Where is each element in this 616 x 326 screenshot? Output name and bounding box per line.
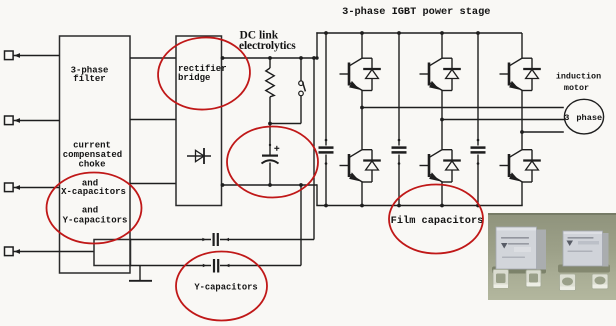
ground	[129, 266, 152, 281]
label: 3-phase IGBT power stage (title)	[342, 6, 490, 18]
annotation ellipse: Y-capacitors	[176, 252, 267, 321]
freewheel diode D5	[442, 150, 461, 182]
freewheel diode D6	[522, 150, 541, 182]
label: Y-capacitors (annotation)	[194, 282, 257, 292]
wire from terminal T2 to filter	[13, 118, 59, 123]
wire filter to rectifier phase 1	[130, 57, 176, 59]
annotation ellipse: X/Y-capacitors	[47, 173, 142, 244]
freewheel diode D1	[362, 58, 381, 90]
node switch top on DC+	[299, 56, 303, 60]
wire leg 3 to bottom bus	[521, 182, 523, 206]
wire from DC- down to lower Y-capacitor line	[300, 185, 302, 266]
node at rectifier DC+ output	[221, 56, 225, 60]
Y-capacitor network box (bottom of filter)	[94, 240, 131, 266]
electrolytic capacitor (DC link)	[262, 124, 280, 186]
svg-text:3-phase IGBT power stage: 3-phase IGBT power stage	[342, 6, 490, 18]
wire filter to rectifier phase 2	[130, 119, 176, 121]
resistor (bleeder/precharge)	[266, 58, 274, 124]
wire from terminal T1 to filter	[13, 53, 59, 58]
svg-text:compensated: compensated	[63, 150, 122, 160]
node C1 bottom bus	[324, 204, 328, 208]
wire phase output W	[522, 131, 564, 133]
svg-text:current: current	[73, 140, 111, 150]
label: and X-capacitors	[61, 179, 126, 198]
node phase tap U	[360, 106, 364, 110]
svg-text:Film capacitors: Film capacitors	[391, 215, 484, 227]
input terminal T3	[5, 183, 14, 192]
node on DC- for Y-line	[299, 183, 303, 187]
svg-text:and: and	[82, 205, 98, 215]
wire DC- from rectifier	[222, 184, 318, 186]
induction motor circle (3 phase)	[564, 99, 603, 134]
node resistor/switch junction	[268, 122, 272, 126]
svg-text:choke: choke	[78, 159, 105, 169]
node phase tap V	[440, 118, 444, 122]
wire from terminal T3 to filter	[13, 185, 59, 190]
node C2 bottom bus	[397, 204, 401, 208]
wire DC- bottom bus	[316, 205, 522, 207]
label: DC link electrolytics	[239, 30, 296, 53]
wire filter to rectifier phase 3	[130, 183, 176, 185]
node riser corner	[315, 56, 318, 59]
node at rectifier DC- output	[221, 183, 225, 187]
node C3 top bus	[476, 31, 480, 35]
node C3 bottom bus	[476, 204, 480, 208]
freewheel diode D4	[362, 150, 381, 182]
wire DC+ from rectifier to riser	[222, 57, 318, 59]
switch contact (bypass)	[299, 58, 306, 124]
label: current compensated choke	[63, 140, 122, 169]
film capacitor C1 (DC link)	[319, 33, 334, 206]
node resistor top on DC+	[268, 56, 272, 60]
node leg 1 bottom bus	[360, 204, 364, 208]
wire DC+ riser	[316, 32, 318, 58]
upper Y-capacitor wire	[130, 239, 314, 241]
node leg 2 top bus	[440, 31, 444, 35]
wire leg 2 from top bus	[441, 33, 443, 58]
annotation ellipse: DC link electrolytics	[227, 127, 318, 198]
wire DC- jog down to bottom bus	[316, 184, 318, 205]
svg-text:Y-capacitors: Y-capacitors	[63, 215, 128, 225]
svg-text:X-capacitors: X-capacitors	[61, 187, 126, 197]
wire joining resistor and switch bottoms	[270, 123, 301, 125]
svg-text:3: 3	[564, 113, 569, 123]
input terminal T4	[5, 247, 14, 256]
svg-text:induction: induction	[556, 72, 601, 82]
node electrolytic at DC- rail	[268, 183, 272, 187]
lower Y-capacitor wire	[130, 265, 301, 267]
node leg 2 bottom bus	[440, 204, 444, 208]
svg-text:filter: filter	[73, 74, 105, 84]
transistor Q3 (IGBT)	[500, 58, 523, 91]
label: 3-phase filter	[71, 65, 109, 84]
3-phase filter box	[60, 36, 131, 273]
annotation ellipse: Film capacitors	[389, 185, 483, 254]
node phase tap W	[520, 130, 524, 134]
node C2 top bus	[397, 31, 401, 35]
input terminal T1	[5, 51, 14, 60]
label: induction motor	[556, 72, 601, 93]
transistor Q2 (IGBT)	[420, 58, 443, 91]
photo of film capacitors (bottom right)	[488, 213, 616, 300]
annotation ellipse: rectifier bridge	[156, 34, 253, 112]
wire leg 1 to bottom bus	[361, 182, 363, 206]
transistor Q1 (IGBT)	[340, 58, 363, 91]
svg-text:motor: motor	[564, 83, 589, 93]
diode symbol inside rectifier	[187, 148, 211, 164]
rectifier bridge box	[176, 36, 222, 206]
wire leg 2 to bottom bus	[441, 182, 443, 206]
label: rectifier bridge	[178, 64, 227, 83]
input terminal T2	[5, 116, 14, 125]
wire leg 3 midpoint	[521, 91, 523, 150]
svg-text:Y-capacitors: Y-capacitors	[194, 282, 257, 292]
wire leg 3 from top bus	[521, 33, 523, 58]
film capacitor C2 (DC link)	[392, 33, 407, 206]
wire phase output V	[442, 119, 565, 121]
wire leg 1 midpoint	[361, 91, 363, 150]
wire leg 1 from top bus	[361, 33, 363, 58]
svg-text:bridge: bridge	[178, 73, 210, 83]
node C1 top bus	[324, 31, 328, 35]
freewheel diode D3	[522, 58, 541, 90]
wire from terminal T4 to filter	[13, 249, 94, 254]
label: and Y-capacitors	[63, 205, 128, 225]
svg-text:phase: phase	[576, 113, 602, 123]
transistor Q5 (IGBT)	[420, 150, 443, 183]
Y-capacitor C_y1	[202, 233, 229, 246]
freewheel diode D2	[442, 58, 461, 90]
node on DC+ for Y-line	[312, 56, 316, 60]
label: Film capacitors (annotation)	[391, 215, 484, 227]
svg-text:electrolytics: electrolytics	[239, 40, 296, 52]
wire DC+ top bus	[316, 32, 522, 34]
transistor Q4 (IGBT)	[340, 150, 363, 183]
wire phase output U	[362, 107, 564, 109]
transistor Q6 (IGBT)	[500, 150, 523, 183]
wire from DC+ down to upper Y-capacitor line	[313, 58, 315, 240]
Y-capacitor C_y2	[203, 259, 230, 273]
film capacitor C3 (DC link)	[471, 33, 486, 206]
node leg 1 top bus	[360, 31, 364, 35]
wire leg 2 midpoint	[441, 91, 443, 150]
